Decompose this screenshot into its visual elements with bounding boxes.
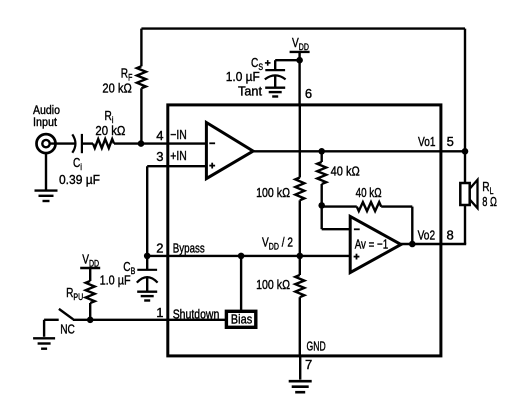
svg-text:NC: NC [60, 322, 75, 337]
svg-text:Tant: Tant [238, 84, 262, 99]
svg-text:7: 7 [305, 357, 312, 372]
svg-text:Bias: Bias [231, 312, 253, 327]
svg-text:Vo1: Vo1 [418, 134, 436, 149]
svg-text:8: 8 [447, 228, 454, 243]
svg-text:Audio: Audio [33, 105, 60, 117]
svg-text:100 kΩ: 100 kΩ [256, 277, 290, 292]
svg-text:6: 6 [305, 86, 312, 101]
svg-text:Av = −1: Av = −1 [355, 236, 389, 251]
svg-text:4: 4 [156, 128, 163, 143]
svg-text:5: 5 [447, 134, 454, 149]
svg-text:−IN: −IN [170, 127, 187, 142]
svg-text:40 kΩ: 40 kΩ [356, 185, 382, 200]
svg-text:100 kΩ: 100 kΩ [256, 185, 290, 200]
svg-text:1: 1 [156, 305, 163, 320]
svg-text:Bypass: Bypass [173, 240, 205, 255]
svg-text:40 kΩ: 40 kΩ [331, 163, 360, 178]
svg-text:+IN: +IN [170, 148, 187, 163]
svg-text:0.39 µF: 0.39 µF [59, 172, 100, 187]
svg-text:20 kΩ: 20 kΩ [95, 123, 125, 138]
svg-text:1.0 µF: 1.0 µF [226, 69, 260, 84]
svg-text:Shutdown: Shutdown [173, 307, 220, 322]
svg-text:1.0 µF: 1.0 µF [100, 273, 131, 288]
svg-text:20 kΩ: 20 kΩ [102, 81, 132, 96]
svg-text:Vo2: Vo2 [418, 228, 436, 243]
svg-text:2: 2 [156, 240, 163, 255]
svg-text:Input: Input [33, 117, 58, 129]
svg-text:8 Ω: 8 Ω [482, 194, 497, 209]
svg-text:GND: GND [307, 339, 326, 354]
svg-text:3: 3 [156, 149, 163, 164]
